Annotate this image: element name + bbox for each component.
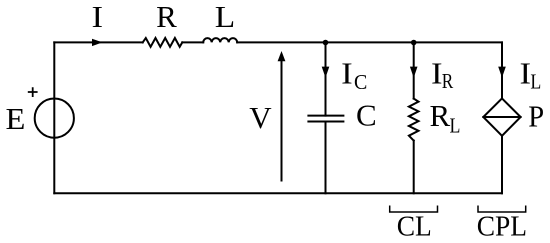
svg-text:E: E	[5, 101, 25, 135]
svg-text:R: R	[429, 98, 450, 133]
svg-text:L: L	[450, 115, 461, 138]
svg-text:I: I	[431, 57, 443, 91]
CL underbrace bracket	[390, 206, 438, 212]
svg-text:I: I	[520, 57, 532, 91]
node dot RL top	[411, 40, 417, 46]
wire bottom	[54, 192, 502, 194]
IR arrow head	[410, 67, 418, 78]
svg-text:I: I	[341, 57, 353, 91]
svg-text:C: C	[356, 98, 377, 133]
dependent source P diamond	[483, 98, 520, 135]
current arrow I head	[92, 39, 103, 46]
node dot capacitor top	[323, 40, 329, 46]
P branch lower wire	[501, 136, 503, 194]
IC arrow head	[322, 67, 330, 78]
svg-text:CPL: CPL	[477, 210, 527, 242]
RL branch upper wire	[413, 42, 415, 98]
CPL underbrace bracket	[478, 206, 526, 212]
svg-text:L: L	[215, 0, 235, 34]
inductor L	[203, 38, 237, 42]
svg-text:R: R	[442, 71, 454, 94]
P branch upper wire	[501, 42, 503, 98]
voltage source E circle	[35, 99, 74, 138]
RL branch lower wire	[413, 141, 415, 194]
svg-text:I: I	[92, 1, 104, 35]
IL arrow head	[498, 67, 506, 78]
plus sign of source	[28, 87, 38, 97]
wire left vertical	[53, 42, 55, 193]
svg-text:R: R	[156, 0, 177, 34]
capacitor branch upper wire	[325, 42, 327, 115]
capacitor branch lower wire	[325, 122, 327, 194]
resistor RL	[409, 99, 419, 141]
V arrow shaft	[281, 59, 283, 181]
svg-text:P: P	[528, 99, 544, 133]
svg-text:V: V	[249, 100, 272, 135]
resistor R	[143, 38, 183, 47]
wire top-left segment	[54, 41, 142, 43]
V arrow head	[278, 51, 286, 61]
svg-text:L: L	[530, 71, 541, 94]
wire between R and L	[182, 41, 203, 43]
wire top-right segment	[237, 41, 502, 43]
svg-text:C: C	[354, 72, 367, 95]
capacitor C plates	[308, 116, 343, 122]
svg-text:CL: CL	[397, 210, 432, 242]
